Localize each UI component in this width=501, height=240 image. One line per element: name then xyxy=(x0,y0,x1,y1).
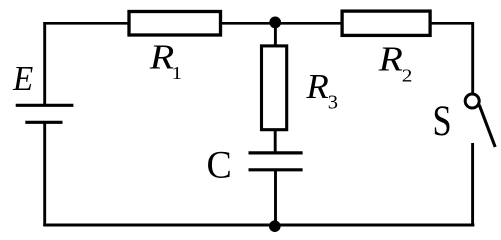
wire bottom xyxy=(43,224,474,227)
svg-text:C: C xyxy=(207,144,232,187)
capacitor C bottom plate xyxy=(249,168,303,171)
node junction top xyxy=(269,17,281,29)
battery E (short plate) xyxy=(25,121,62,124)
node junction bottom xyxy=(269,220,281,232)
capacitor C top plate xyxy=(249,151,303,154)
svg-text:R: R xyxy=(305,67,329,106)
svg-text:3: 3 xyxy=(328,92,338,114)
wire top segment middle (R1 to R2) xyxy=(221,22,343,25)
wire middle upper (top node to R3) xyxy=(274,22,277,46)
wire right upper (corner down to switch) xyxy=(471,22,474,93)
wire middle mid (R3 to capacitor) xyxy=(274,130,277,153)
resistor R3 xyxy=(262,46,287,130)
wire right lower (switch contact down to bottom wire) xyxy=(471,143,474,226)
wire left lower (battery down to bottom wire) xyxy=(43,122,46,226)
svg-text:E: E xyxy=(12,60,34,98)
svg-text:R: R xyxy=(378,41,403,79)
svg-text:S: S xyxy=(433,97,452,145)
svg-text:R: R xyxy=(149,39,175,77)
battery E (long plate) xyxy=(16,104,74,107)
switch S pivot circle xyxy=(465,94,479,108)
svg-text:1: 1 xyxy=(172,64,182,83)
wire top segment right (R2 to right corner) xyxy=(430,22,474,25)
wire left upper (top corner down to battery) xyxy=(43,22,46,105)
switch S blade xyxy=(479,105,495,147)
wire top segment left (E to R1) xyxy=(43,22,129,25)
resistor R2 xyxy=(342,11,430,35)
wire middle lower (capacitor to bottom node) xyxy=(274,170,277,225)
resistor R1 xyxy=(129,12,221,36)
svg-text:2: 2 xyxy=(402,66,413,86)
